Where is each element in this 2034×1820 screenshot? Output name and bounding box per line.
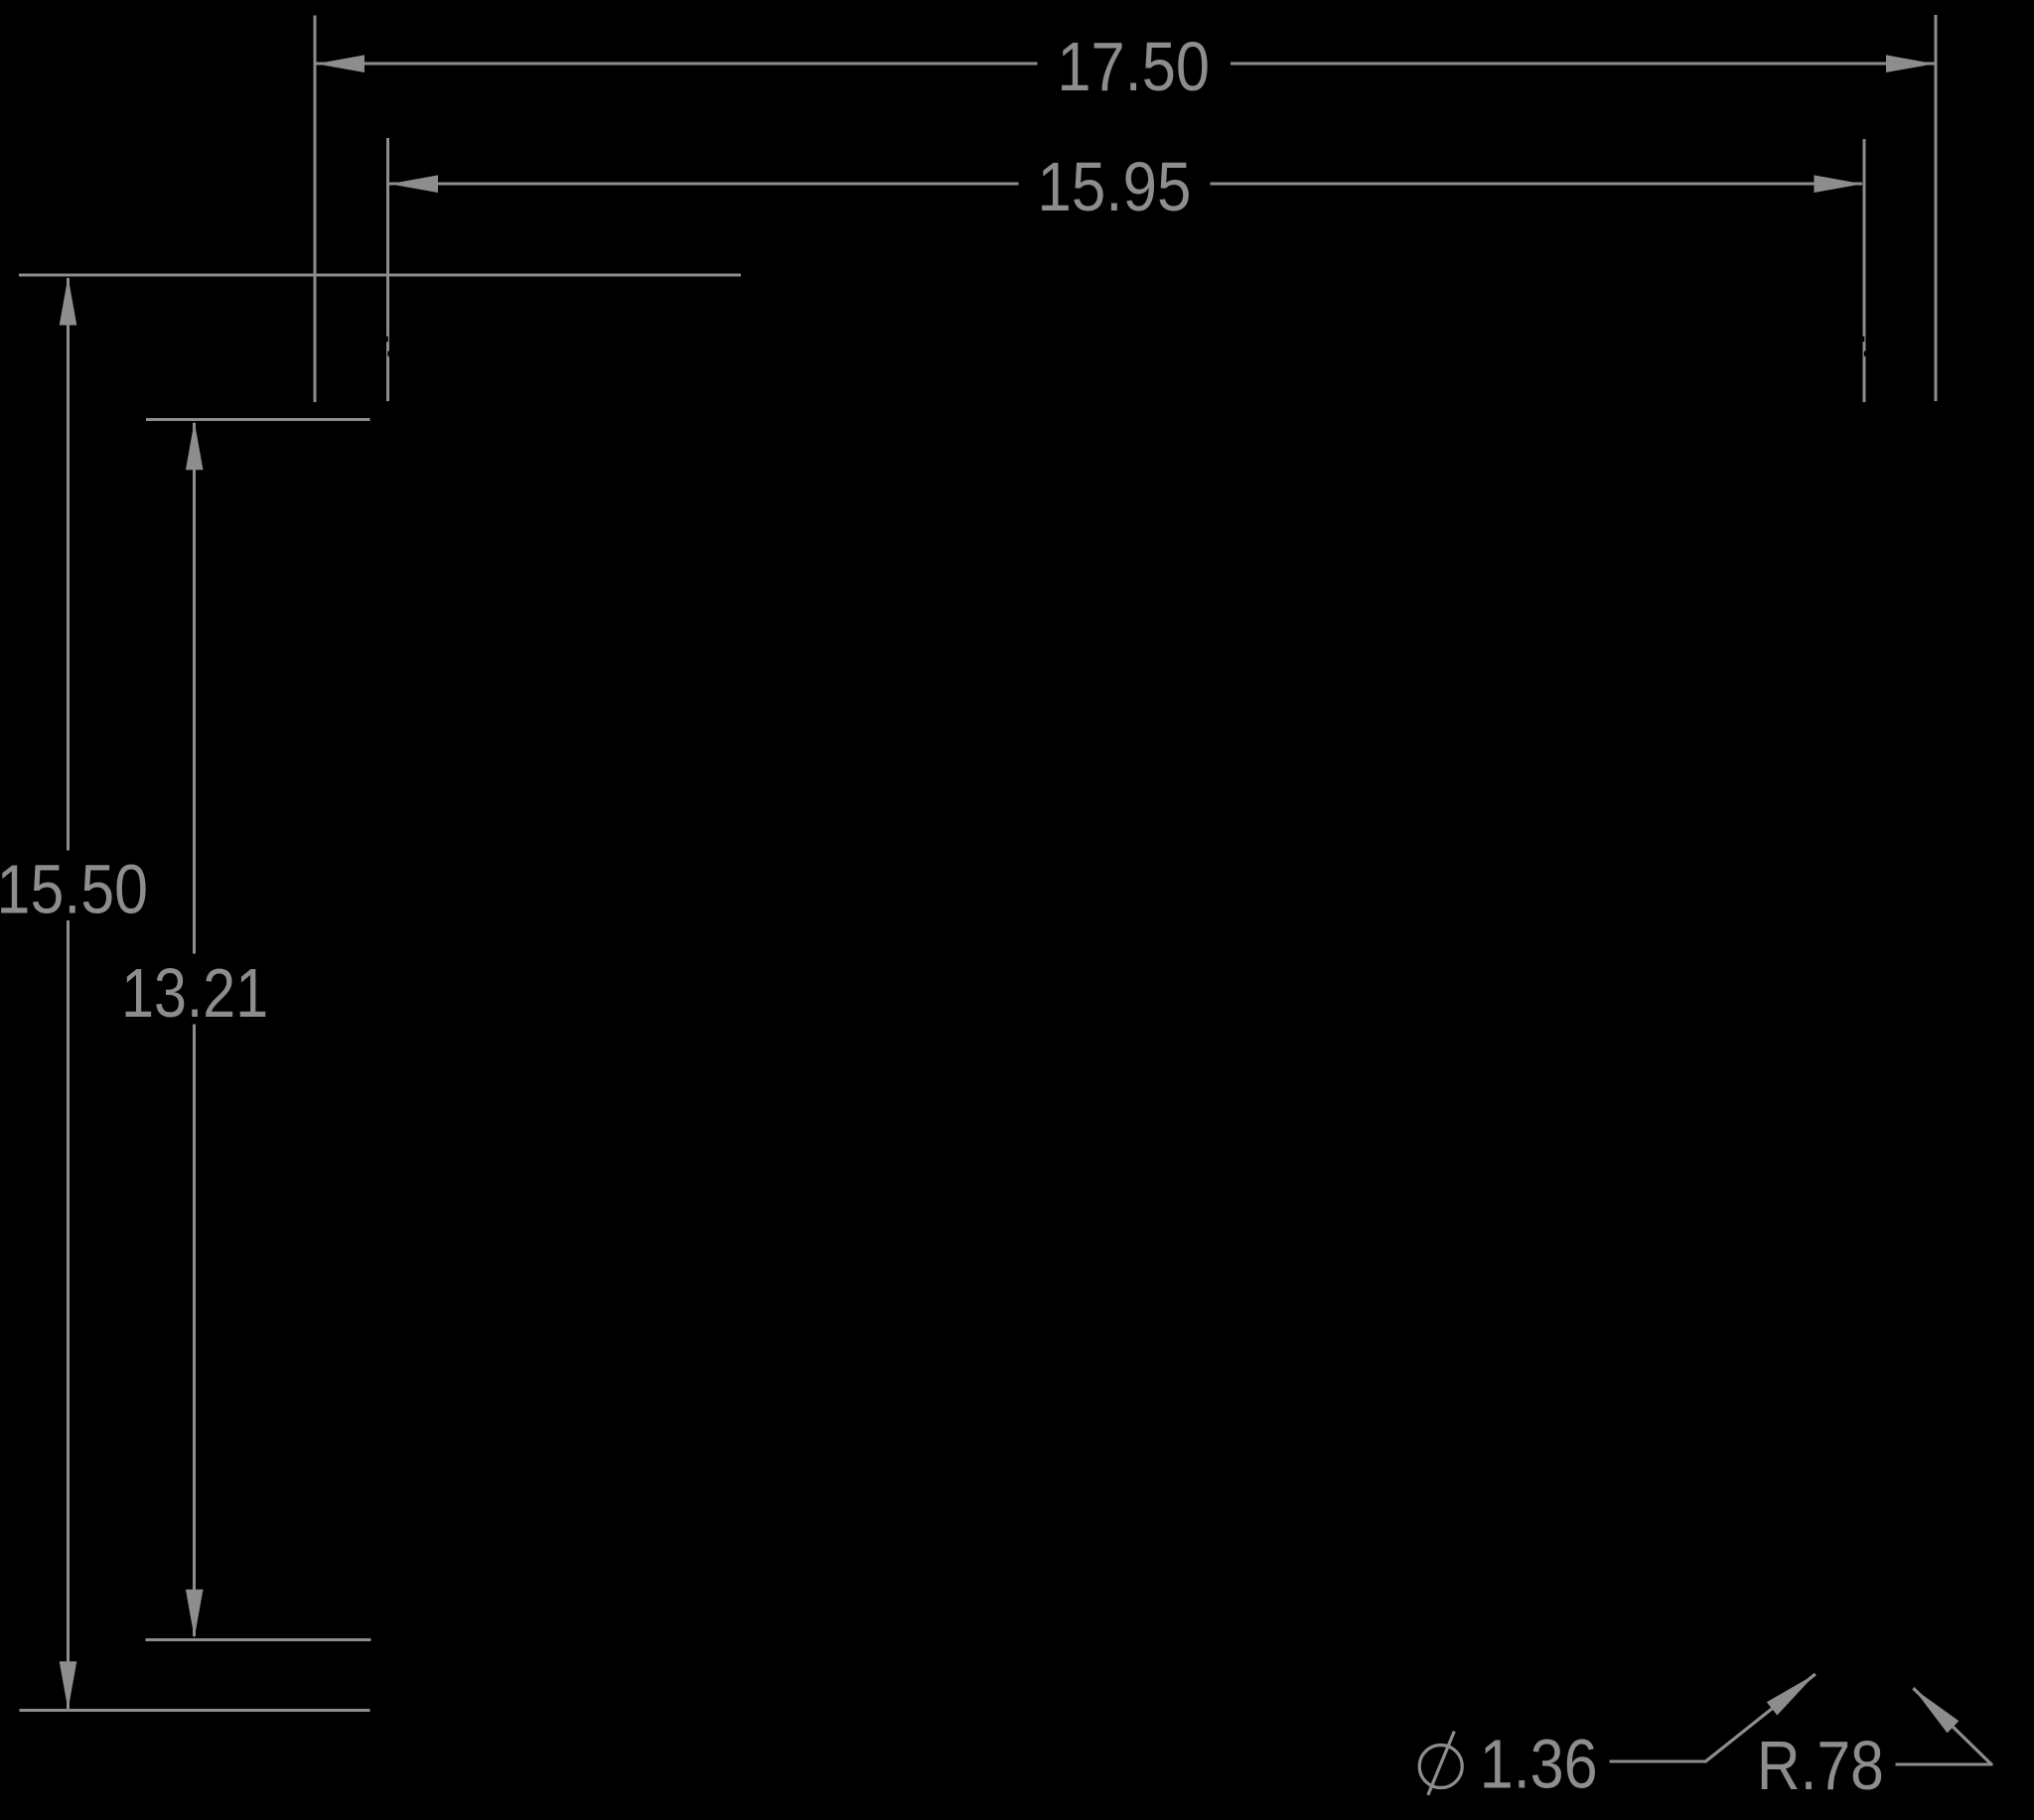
notch where hidden object edge crosses left 15.95 extension line (upper)	[386, 337, 388, 343]
svg-text:15.50: 15.50	[0, 851, 148, 928]
svg-text:15.95: 15.95	[1037, 148, 1191, 225]
arrowhead leader R.78	[1913, 1688, 1959, 1733]
extension line top reference edge (15.50)	[19, 274, 741, 277]
arrowhead 17.50 left	[316, 55, 364, 72]
dimension line 13.21 lower segment	[193, 1025, 196, 1637]
notch where hidden object edge crosses right 15.95 extension line (lower)	[1864, 351, 1866, 356]
dimension line 15.95 left segment	[389, 183, 1019, 186]
extension line right of 17.50 dimension	[1935, 15, 1938, 401]
leader horizontal line for diameter 1.36	[1610, 1760, 1706, 1763]
svg-text:17.50: 17.50	[1057, 28, 1210, 105]
leader diagonal for diameter 1.36	[1704, 1674, 1816, 1762]
extension line left of 15.95 dimension	[386, 138, 389, 401]
arrowhead 15.95 right	[1815, 175, 1863, 193]
notch where hidden object edge crosses left 15.95 extension line (lower)	[387, 351, 389, 356]
extension line right of 15.95 dimension	[1862, 139, 1865, 402]
arrowhead 13.21 top	[186, 421, 204, 470]
arrowhead 17.50 right	[1886, 55, 1935, 72]
dimension line 15.50 upper segment	[67, 278, 70, 850]
arrowhead 13.21 bottom	[186, 1590, 204, 1638]
extension line bottom (13.21)	[146, 1638, 371, 1641]
extension line left of 17.50 dimension	[313, 15, 316, 402]
dimension line 15.50 lower segment	[67, 920, 70, 1709]
leader diagonal for radius R.78	[1913, 1688, 1991, 1764]
extension line top (13.21)	[146, 418, 369, 421]
leader horizontal line for radius R.78	[1896, 1763, 1993, 1766]
dimension line 13.21 upper segment	[193, 423, 196, 954]
svg-text:13.21: 13.21	[121, 954, 268, 1032]
arrowhead 15.95 left	[389, 175, 438, 193]
extension line bottom (15.50)	[19, 1709, 369, 1712]
diameter symbol circle	[1419, 1746, 1462, 1788]
arrowhead 15.50 bottom	[60, 1661, 77, 1710]
dimension line 17.50 left segment	[316, 63, 1038, 66]
dimension line 17.50 right segment	[1231, 63, 1934, 66]
notch where hidden object edge crosses right 15.95 extension line (upper)	[1862, 337, 1864, 343]
dimension line 15.95 right segment	[1211, 183, 1862, 186]
svg-text:R.78: R.78	[1757, 1727, 1884, 1804]
svg-text:1.36: 1.36	[1480, 1726, 1598, 1803]
diameter symbol slash	[1428, 1732, 1455, 1795]
arrowhead 15.50 top	[60, 277, 77, 326]
arrowhead leader 1.36	[1767, 1674, 1816, 1716]
